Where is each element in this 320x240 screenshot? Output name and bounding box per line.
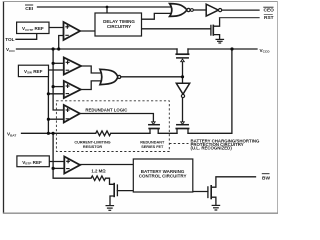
- svg-text:1.2 MΩ: 1.2 MΩ: [91, 168, 106, 173]
- svg-text:VCCTP REF: VCCTP REF: [22, 26, 44, 32]
- svg-text:CEI: CEI: [25, 6, 34, 12]
- svg-text:CIRCUITRY: CIRCUITRY: [107, 24, 131, 29]
- svg-text:CONTROL CIRCUITRY: CONTROL CIRCUITRY: [139, 174, 187, 179]
- svg-text:CEO: CEO: [264, 8, 275, 14]
- svg-text:VBTP REF: VBTP REF: [22, 160, 42, 166]
- svg-text:VSW REF: VSW REF: [24, 69, 43, 75]
- svg-text:SERIES FET: SERIES FET: [141, 145, 164, 149]
- svg-text:BW: BW: [262, 175, 270, 181]
- svg-text:TOL: TOL: [5, 37, 14, 42]
- svg-text:RESISTOR: RESISTOR: [83, 145, 103, 149]
- svg-text:REDUNDANT LOGIC: REDUNDANT LOGIC: [85, 107, 127, 112]
- svg-text:RST: RST: [264, 15, 274, 21]
- svg-text:(U.L. RECOGNIZED): (U.L. RECOGNIZED): [191, 146, 233, 151]
